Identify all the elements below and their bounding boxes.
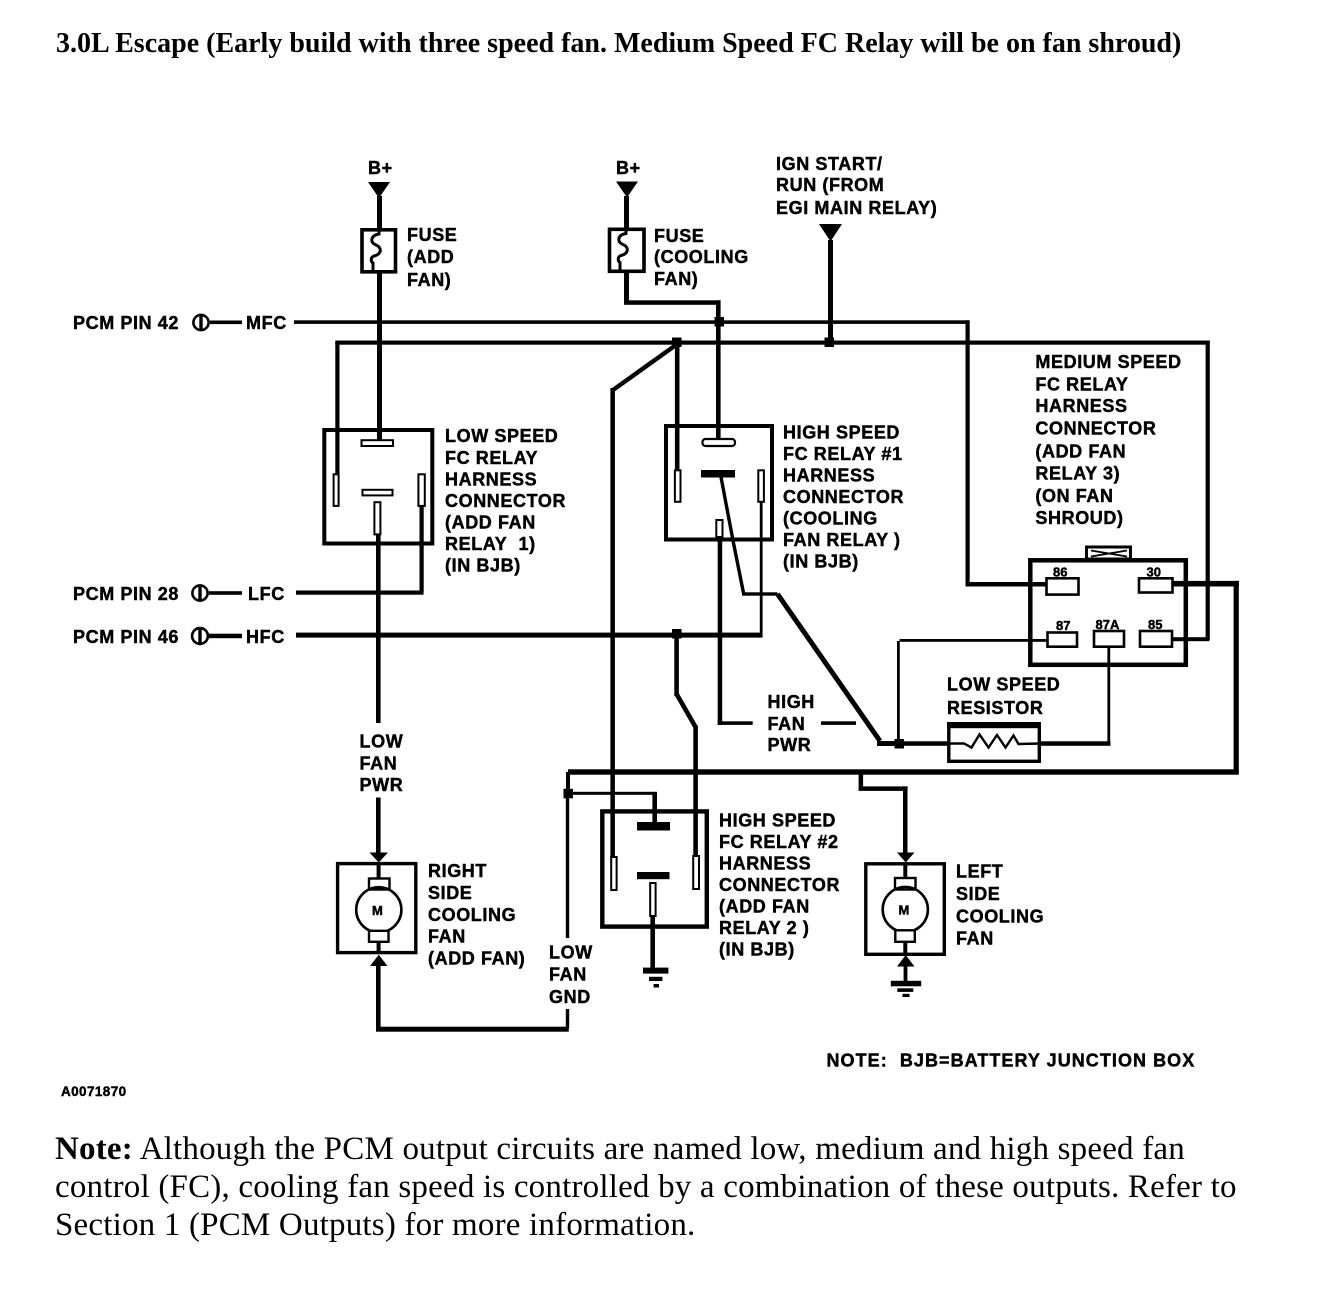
wire HFC run (296, 633, 763, 638)
K3 pin 30 (1139, 578, 1173, 592)
wire branch down to left fan (859, 772, 864, 790)
svg-text:HIGH SPEED: HIGH SPEED (783, 423, 900, 443)
svg-text:HFC: HFC (246, 627, 285, 647)
wire stub pin46 to HFC label (209, 634, 242, 639)
svg-text:MEDIUM SPEED: MEDIUM SPEED (1035, 352, 1181, 372)
svg-text:RELAY 2 ): RELAY 2 ) (719, 918, 809, 938)
wire y342 junction down into relay1 left slot (675, 342, 680, 471)
wire resistor right (1041, 741, 1111, 746)
wire HFC junction down (674, 637, 679, 696)
wire diagonal tail to junction (877, 741, 900, 746)
net HIGH FAN PWR label dash left (718, 721, 753, 725)
wire stub pin28 to LFC label (209, 591, 242, 595)
svg-text:(COOLING: (COOLING (783, 509, 878, 529)
K2 pin left slot (675, 470, 681, 502)
net LOW FAN GND label (549, 943, 593, 1008)
K1 pin top (coil) (362, 440, 394, 446)
wire pin 30 to right (1173, 581, 1239, 587)
K4 pin top bar (coil) (637, 822, 670, 831)
resistor R1 low speed resistor box (947, 722, 1041, 761)
K3 pin 30 number label (1147, 565, 1161, 580)
M1 bottom terminal and stub (369, 931, 389, 954)
svg-text:FC RELAY: FC RELAY (445, 448, 538, 468)
svg-text:COOLING: COOLING (956, 907, 1044, 927)
motor M1 label (428, 861, 525, 969)
K2 pin common bar (701, 470, 735, 478)
wire bus line y342 (335, 341, 1210, 345)
wire drop x1234 (1234, 581, 1239, 773)
svg-text:FAN: FAN (360, 754, 398, 774)
svg-text:PCM PIN 28: PCM PIN 28 (73, 584, 179, 604)
svg-text:30: 30 (1147, 565, 1161, 580)
resistor R1 label (947, 675, 1060, 719)
svg-text:RELAY 3): RELAY 3) (1035, 464, 1120, 484)
svg-text:FAN): FAN) (654, 269, 698, 289)
B+ arrow terminal (add fan) (368, 182, 390, 198)
wire B+ to fuse (add fan) (377, 196, 382, 229)
figure number label (61, 1084, 127, 1099)
svg-text:(IN BJB): (IN BJB) (783, 552, 859, 572)
wire MFC to connector pin 86 (966, 582, 1048, 587)
arrow up into right fan bottom (370, 955, 388, 966)
wire junction to resistor left (903, 741, 948, 746)
K2 pin right slot (758, 470, 764, 502)
connector K2 high speed FC relay 1 harness connector box (666, 426, 772, 540)
wire switch arm horizontal step (742, 592, 778, 595)
net HIGH FAN PWR label (768, 692, 815, 755)
wire y342 right drop to pin 85 (1206, 341, 1210, 641)
junction HFC / relay2 feed (672, 629, 682, 639)
svg-text:FUSE: FUSE (654, 226, 704, 246)
wire right fan bottom leg (376, 964, 381, 1029)
fuse F1 value label (407, 225, 457, 290)
connector K3 medium speed FC relay harness connector box (1030, 560, 1186, 665)
junction y342 / IGN feed (825, 338, 835, 348)
wire MFC vertical drop at right (966, 320, 970, 586)
connector K2 label (783, 423, 904, 572)
wire relay2 coil drop (652, 792, 657, 824)
K3 pin 87A (1094, 631, 1124, 647)
svg-text:HIGH SPEED: HIGH SPEED (719, 811, 836, 831)
svg-text:87: 87 (1056, 618, 1070, 633)
fuse F2 value label (654, 226, 749, 289)
K2 pin top (coil) (703, 439, 736, 446)
arrow into left fan (897, 853, 915, 863)
svg-text:B+: B+ (616, 158, 641, 178)
svg-text:LOW: LOW (360, 732, 404, 752)
K1 pin right slot (418, 474, 424, 506)
svg-text:B+: B+ (368, 158, 393, 178)
wire LFC run (296, 591, 424, 595)
svg-text:HARNESS: HARNESS (445, 470, 537, 490)
wire fuse F2 drop to high speed relay 1 pin (716, 300, 721, 440)
connector K4 high speed FC relay 2 harness connector box (602, 811, 707, 926)
svg-text:SHROUD): SHROUD) (1035, 508, 1123, 528)
M2 motor circle (883, 887, 928, 932)
M2 top stub and terminal (895, 862, 916, 890)
svg-text:FAN: FAN (428, 927, 466, 947)
svg-text:87A: 87A (1096, 617, 1120, 632)
svg-text:CONNECTOR: CONNECTOR (445, 491, 566, 511)
K4 pin left slot (611, 857, 616, 890)
svg-text:LFC: LFC (248, 584, 285, 604)
svg-text:85: 85 (1148, 617, 1162, 632)
wire B+ to fuse (cooling fan) (624, 196, 629, 229)
wire to relay2 coil (572, 792, 654, 795)
wire K2 right slot down to HFC end (760, 502, 763, 636)
wire left fan to ground (904, 965, 908, 982)
motor M2 label (956, 862, 1044, 949)
K1 pin left slot (334, 474, 339, 506)
wire drop into relay2 right slot (693, 726, 698, 858)
connector K1 label (445, 426, 566, 576)
IGN arrow terminal (819, 224, 842, 242)
svg-text:IGN START/: IGN START/ (776, 154, 883, 174)
PCM pin 46 connector circle (192, 628, 208, 644)
svg-text:COOLING: COOLING (428, 905, 516, 925)
net LFC label (248, 584, 285, 604)
wire K1 right slot down to LFC (420, 506, 424, 593)
K4 pin lower slot (650, 883, 655, 916)
K4 pin mid bar (637, 872, 670, 879)
K2 pin lower slot (716, 520, 722, 537)
K3 pin 85 (1140, 631, 1172, 647)
svg-text:(ADD FAN): (ADD FAN) (428, 949, 525, 969)
svg-text:NOTE: BJB=BATTERY JUNCTION BO: NOTE: BJB=BATTERY JUNCTION BOX (827, 1051, 1196, 1071)
svg-text:RUN (FROM: RUN (FROM (776, 175, 884, 195)
svg-text:(IN BJB): (IN BJB) (445, 556, 521, 576)
wire IGN down to y342 (828, 240, 833, 343)
svg-text:(ADD FAN: (ADD FAN (1035, 442, 1126, 462)
svg-text:A0071870: A0071870 (61, 1084, 127, 1099)
K4 pin right slot (693, 856, 699, 889)
motor M2 left side cooling fan box (866, 864, 945, 955)
wire long run left end drop (566, 772, 570, 795)
node IGN START/RUN label (776, 154, 937, 218)
K3 pin 87A number label (1096, 617, 1120, 632)
wire junction up at x898 (897, 641, 900, 741)
wire MFC horizontal run (294, 320, 969, 324)
node PCM PIN 42 label (73, 313, 179, 333)
svg-text:(COOLING: (COOLING (654, 247, 749, 267)
wire stub pin42 to MFC label (210, 321, 242, 325)
svg-text:(IN BJB): (IN BJB) (719, 940, 795, 960)
svg-text:CONNECTOR: CONNECTOR (1035, 419, 1156, 439)
K3 pin 86 (1047, 578, 1079, 594)
node PCM PIN 28 label (73, 584, 179, 604)
svg-text:FAN: FAN (549, 965, 587, 985)
connector K1 low speed FC relay harness connector box (324, 430, 432, 544)
M1 motor circle (356, 887, 401, 932)
K3 pin 85 number label (1148, 617, 1162, 632)
wire fuse F1 down to low speed relay pin (377, 272, 382, 441)
B+ label (add fan feed) (368, 158, 393, 178)
wire jog to x696 (677, 694, 696, 727)
ground symbol G1 (643, 968, 668, 988)
svg-text:RELAY 1): RELAY 1) (445, 534, 536, 554)
resistor R1 zigzag element (947, 735, 1041, 748)
svg-text:LEFT: LEFT (956, 862, 1003, 882)
junction low fan gnd node (564, 789, 574, 799)
wire fuse F2 output down (624, 271, 629, 304)
net HFC label (246, 627, 285, 647)
svg-text:LOW SPEED: LOW SPEED (445, 426, 558, 446)
wire big diagonal to resistor junction (778, 594, 881, 741)
junction y342 / diagonal feed (672, 338, 682, 348)
svg-text:M: M (372, 903, 383, 918)
svg-text:(ON FAN: (ON FAN (1035, 486, 1113, 506)
wire up to connector pin 87A (1107, 647, 1110, 742)
M2 bottom terminal and stub (895, 930, 915, 954)
fuse F1 (ADD FAN) (362, 230, 396, 272)
wire K2 lower slot down to high fan pwr label (718, 537, 723, 725)
svg-text:PCM PIN 46: PCM PIN 46 (73, 627, 179, 647)
wire low fan gnd vertical upper (566, 797, 569, 938)
svg-text:FAN: FAN (768, 714, 806, 734)
svg-text:FC RELAY: FC RELAY (1035, 375, 1128, 395)
svg-text:FAN): FAN) (407, 270, 451, 290)
svg-text:PWR: PWR (360, 775, 404, 795)
connector K3 label (1035, 352, 1181, 528)
junction MFC / fuse F2 output (715, 317, 725, 327)
wire K4 to ground (650, 916, 655, 969)
svg-text:(ADD FAN: (ADD FAN (719, 897, 810, 917)
svg-text:(ADD FAN: (ADD FAN (445, 513, 536, 533)
arrow into right fan (370, 853, 389, 863)
wire into connector pin 85 (1170, 637, 1209, 641)
B+ label (cooling fan feed) (616, 158, 641, 178)
wire drop x612 into relay2 left slot (610, 388, 615, 858)
net LOW FAN PWR label (360, 732, 404, 796)
svg-text:HARNESS: HARNESS (719, 854, 811, 874)
K1 pin mid (363, 490, 393, 496)
connector K4 label (719, 811, 840, 960)
arrow up into left fan bottom (897, 955, 915, 967)
svg-text:LOW: LOW (549, 943, 593, 963)
junction resistor node (895, 739, 905, 749)
K1 pin lower slot (374, 502, 380, 534)
svg-text:PWR: PWR (768, 735, 812, 755)
svg-text:FC RELAY #2: FC RELAY #2 (719, 832, 839, 852)
svg-text:M: M (899, 903, 910, 918)
svg-text:SIDE: SIDE (956, 884, 1000, 904)
wire fuse F2 output right (624, 300, 721, 305)
wire low fan pwr to right fan (376, 798, 381, 854)
svg-text:86: 86 (1053, 565, 1067, 580)
wire y342 left drop into low speed relay (335, 342, 339, 475)
note paragraph (55, 1130, 1237, 1245)
wire left fan feed drop (903, 786, 908, 853)
svg-text:PCM PIN 42: PCM PIN 42 (73, 313, 179, 333)
svg-text:SIDE: SIDE (428, 883, 472, 903)
svg-text:CONNECTOR: CONNECTOR (783, 487, 904, 507)
svg-text:HIGH: HIGH (768, 692, 815, 712)
wire low fan gnd vertical lower (566, 1009, 569, 1028)
node PCM PIN 46 label (73, 627, 179, 647)
svg-text:RIGHT: RIGHT (428, 861, 487, 881)
K3 pin 87 number label (1056, 618, 1070, 633)
svg-text:FAN RELAY ): FAN RELAY ) (783, 530, 901, 550)
svg-text:HARNESS: HARNESS (1035, 396, 1127, 416)
ground symbol G2 (891, 981, 921, 997)
B+ arrow terminal (cooling fan) (616, 182, 638, 198)
K3 pin 86 number label (1053, 565, 1067, 580)
PCM pin 42 connector circle (193, 315, 208, 331)
net MFC label (246, 313, 287, 333)
svg-text:LOW SPEED: LOW SPEED (947, 675, 1060, 695)
svg-text:EGI MAIN RELAY): EGI MAIN RELAY) (776, 198, 937, 218)
K2 switch arm diagonal (721, 477, 744, 593)
svg-text:FC RELAY #1: FC RELAY #1 (783, 444, 903, 464)
note BJB label (827, 1051, 1196, 1071)
svg-text:FAN: FAN (956, 929, 994, 949)
svg-text:GND: GND (549, 987, 591, 1007)
connector K3 medium speed relay keying tab (1087, 547, 1131, 559)
PCM pin 28 connector circle (192, 585, 207, 601)
M1 top stub and terminal (369, 862, 390, 890)
svg-text:HARNESS: HARNESS (783, 466, 875, 486)
net HIGH FAN PWR label dash right (821, 721, 856, 725)
wire long power run y771 (568, 769, 1239, 774)
wire diagonal from y342 junction (613, 344, 678, 391)
motor M1 right side cooling fan box (338, 864, 416, 953)
wire to connector pin 87 (900, 639, 1048, 642)
title (56, 28, 1181, 60)
K3 pin 87 (1048, 633, 1078, 647)
svg-text:(ADD: (ADD (407, 247, 454, 267)
wire low fan gnd bottom run (376, 1027, 569, 1032)
svg-text:MFC: MFC (246, 313, 287, 333)
wire K1 lower slot down (low fan pwr) (376, 534, 381, 723)
svg-text:CONNECTOR: CONNECTOR (719, 875, 840, 895)
svg-text:RESISTOR: RESISTOR (947, 698, 1044, 718)
fuse F2 (COOLING FAN) (610, 229, 645, 271)
wire branch right jog (859, 786, 908, 791)
svg-text:FUSE: FUSE (407, 225, 457, 245)
